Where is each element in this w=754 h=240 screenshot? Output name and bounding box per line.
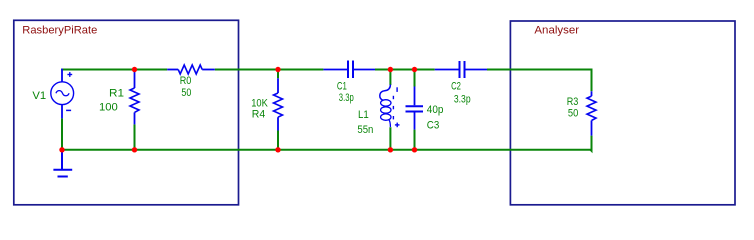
wire bottom rail <box>62 149 592 151</box>
wire top rail: C2 right to R3 top corner <box>487 70 592 92</box>
svg-text:C1: C1 <box>337 81 347 93</box>
svg-text:55n: 55n <box>357 124 373 136</box>
resistor R4 <box>274 78 283 130</box>
svg-text:50: 50 <box>181 87 191 99</box>
node dot R1 top <box>132 67 137 72</box>
svg-text:C2: C2 <box>451 80 461 92</box>
svg-text:Analyser: Analyser <box>534 25 579 37</box>
inductor L1 <box>380 85 400 128</box>
wire top rail: R0 right to C1 left <box>215 69 324 71</box>
wire R4 bottom <box>277 131 279 150</box>
svg-text:R0: R0 <box>180 75 192 87</box>
resistor R1 <box>130 70 139 125</box>
wire L1 top <box>389 70 391 86</box>
source V1 <box>51 69 74 119</box>
node dot C3 bottom <box>412 147 417 152</box>
node dot R4 bottom <box>275 147 280 152</box>
svg-text:50: 50 <box>568 107 578 119</box>
node dot C3 top <box>412 67 417 72</box>
svg-text:R3: R3 <box>567 96 579 108</box>
wire top rail: C1 right to C2 left <box>375 69 435 71</box>
resistor R3 <box>587 91 596 135</box>
svg-text:3.3p: 3.3p <box>339 92 354 104</box>
capacitor C1 <box>323 61 375 79</box>
wire R3 bottom <box>591 136 592 151</box>
svg-text:R1: R1 <box>109 87 124 99</box>
wire C3 top <box>414 70 416 87</box>
svg-text:L1: L1 <box>358 109 369 121</box>
wire V1 bottom <box>61 118 63 149</box>
ground <box>53 150 72 177</box>
svg-text:3.3p: 3.3p <box>454 94 471 106</box>
node dot R4 top <box>275 67 280 72</box>
wire C3 bottom <box>414 130 416 150</box>
svg-text:10K: 10K <box>251 97 268 109</box>
svg-text:40p: 40p <box>427 104 444 116</box>
svg-text:R4: R4 <box>252 109 265 121</box>
node dot L1 top <box>388 67 393 72</box>
node dot ground <box>59 147 64 152</box>
svg-text:C3: C3 <box>427 120 440 132</box>
wire L1 bottom <box>389 127 391 150</box>
wire R4 top <box>277 70 279 79</box>
svg-text:100: 100 <box>99 101 118 113</box>
svg-text:RasberyPiRate: RasberyPiRate <box>22 24 97 36</box>
box Analyser <box>510 21 735 205</box>
capacitor C2 <box>435 61 487 78</box>
capacitor C3 <box>406 87 424 130</box>
node dot R1 bottom <box>132 147 137 152</box>
svg-text:V1: V1 <box>32 90 46 102</box>
wire R1 bottom <box>134 124 136 149</box>
box RasberyPiRate <box>14 20 239 205</box>
resistor R0 <box>167 65 215 74</box>
wire top rail: V1 corner to R0 left <box>61 69 167 71</box>
node dot L1 bottom <box>388 147 393 152</box>
